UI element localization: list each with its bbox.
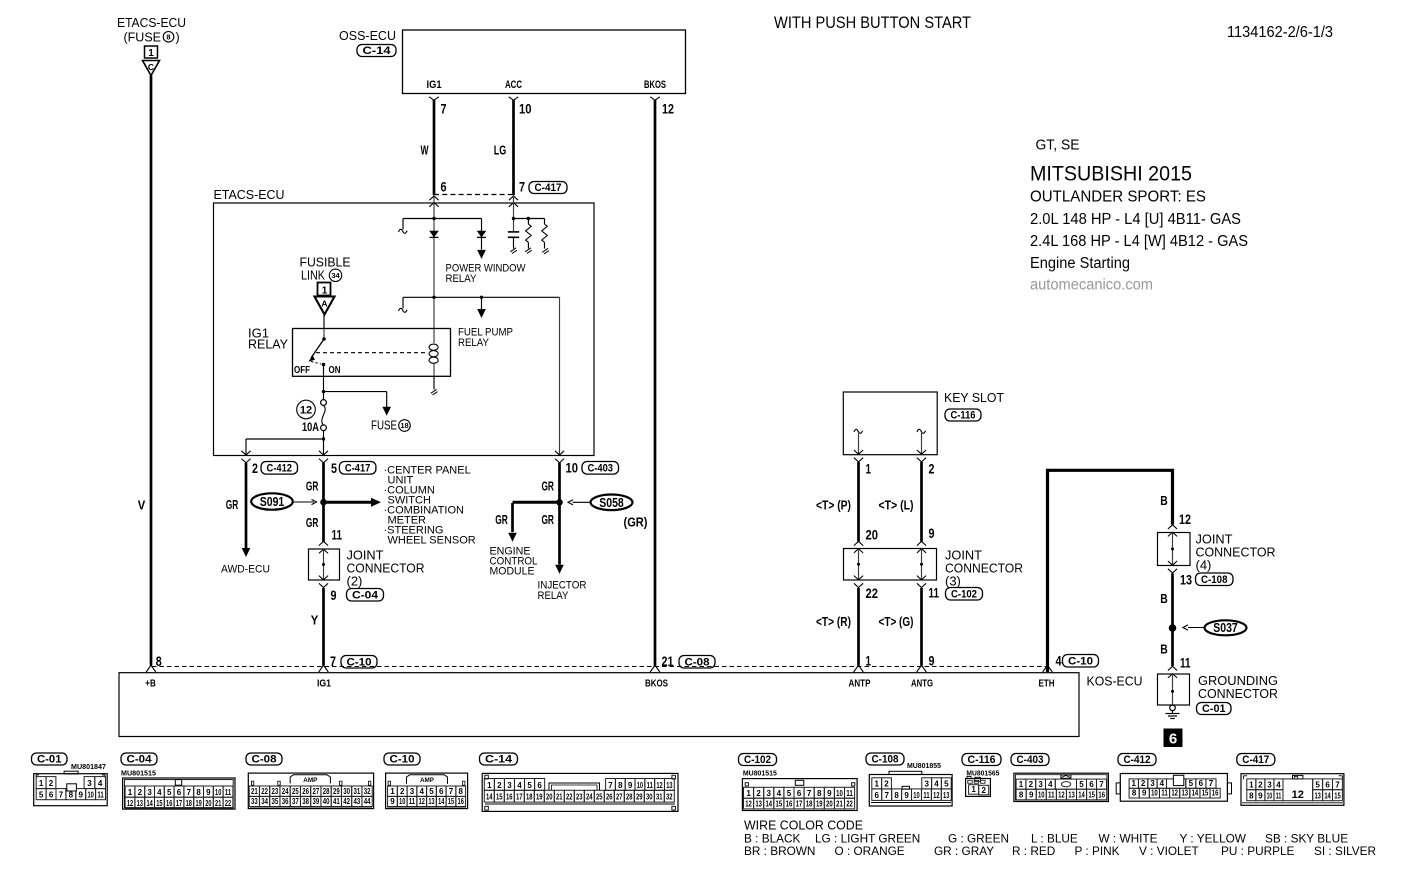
svg-text:6: 6 xyxy=(1199,779,1204,788)
svg-text:20: 20 xyxy=(205,799,212,808)
svg-text:<T> (P): <T> (P) xyxy=(816,499,851,513)
svg-text:13: 13 xyxy=(1180,573,1192,588)
svg-text:12: 12 xyxy=(1179,512,1191,527)
svg-text:C-10: C-10 xyxy=(1068,656,1093,668)
svg-text:WITH PUSH BUTTON START: WITH PUSH BUTTON START xyxy=(774,13,971,32)
svg-text:44: 44 xyxy=(364,797,371,806)
svg-text:28: 28 xyxy=(626,793,633,802)
svg-text:11: 11 xyxy=(929,586,940,601)
svg-text:10: 10 xyxy=(1151,789,1158,798)
svg-text:OSS-ECU: OSS-ECU xyxy=(339,28,396,43)
svg-text:4: 4 xyxy=(1276,780,1281,789)
svg-text:14: 14 xyxy=(1324,791,1331,800)
svg-text:C-01: C-01 xyxy=(37,754,62,766)
svg-text:7: 7 xyxy=(608,781,613,790)
svg-text:1: 1 xyxy=(1249,780,1254,789)
svg-text:6: 6 xyxy=(537,781,542,790)
svg-text:9: 9 xyxy=(1142,789,1147,798)
svg-text:12: 12 xyxy=(745,800,752,809)
svg-text:9: 9 xyxy=(1258,791,1263,800)
svg-text:KOS-ECU: KOS-ECU xyxy=(1087,674,1143,689)
svg-text:2: 2 xyxy=(497,781,502,790)
svg-text:2: 2 xyxy=(400,787,405,796)
svg-text:12: 12 xyxy=(127,799,134,808)
svg-text:9: 9 xyxy=(929,526,935,541)
svg-text:15: 15 xyxy=(448,797,455,806)
svg-text:9: 9 xyxy=(331,588,337,603)
svg-text:5: 5 xyxy=(39,790,44,799)
svg-text:GR: GR xyxy=(495,512,508,527)
svg-text:11: 11 xyxy=(97,790,104,799)
svg-text:2: 2 xyxy=(49,779,54,788)
svg-text:PU : PURPLE: PU : PURPLE xyxy=(1221,844,1295,858)
svg-text:10: 10 xyxy=(913,791,920,800)
svg-text:4: 4 xyxy=(157,788,162,797)
svg-text:(FUSE: (FUSE xyxy=(124,31,162,45)
svg-text:<T> (R): <T> (R) xyxy=(816,615,851,629)
svg-text:24: 24 xyxy=(282,787,289,796)
svg-text:9: 9 xyxy=(904,791,909,800)
svg-text:14: 14 xyxy=(486,793,493,802)
svg-text:C-14: C-14 xyxy=(363,45,392,57)
svg-text:ANTP: ANTP xyxy=(849,679,871,690)
svg-text:10: 10 xyxy=(215,788,222,797)
svg-text:15: 15 xyxy=(496,793,503,802)
svg-text:12: 12 xyxy=(662,102,674,117)
svg-text:MODULE: MODULE xyxy=(490,566,535,578)
svg-text:<T> (L): <T> (L) xyxy=(879,499,914,513)
svg-text:24: 24 xyxy=(586,793,593,802)
svg-text:21: 21 xyxy=(662,654,674,669)
svg-text:6: 6 xyxy=(439,787,444,796)
svg-text:22: 22 xyxy=(846,800,853,809)
svg-text:26: 26 xyxy=(606,793,613,802)
svg-text:5: 5 xyxy=(787,789,792,798)
svg-text:22: 22 xyxy=(225,799,232,808)
svg-text:2: 2 xyxy=(1258,780,1263,789)
svg-text:26: 26 xyxy=(302,787,309,796)
svg-text:10A: 10A xyxy=(302,422,319,434)
svg-text:W: W xyxy=(421,143,429,158)
svg-text:34: 34 xyxy=(331,271,340,280)
svg-text:ON: ON xyxy=(329,364,341,376)
svg-text:4: 4 xyxy=(777,789,782,798)
svg-text:ANTG: ANTG xyxy=(911,679,933,690)
svg-text:29: 29 xyxy=(636,793,643,802)
svg-text:17: 17 xyxy=(796,800,803,809)
svg-text:5: 5 xyxy=(1079,780,1084,789)
svg-text:8: 8 xyxy=(1132,789,1137,798)
svg-text:9: 9 xyxy=(79,790,84,799)
svg-text:16: 16 xyxy=(1098,790,1105,799)
svg-text:31: 31 xyxy=(353,787,360,796)
svg-text:O : ORANGE: O : ORANGE xyxy=(835,844,905,858)
svg-text:10: 10 xyxy=(1267,791,1273,800)
svg-text:7: 7 xyxy=(187,788,192,797)
svg-text:4: 4 xyxy=(517,781,522,790)
svg-text:1: 1 xyxy=(487,781,492,790)
svg-text:12: 12 xyxy=(933,791,940,800)
svg-text:11: 11 xyxy=(225,788,232,797)
svg-text:5: 5 xyxy=(331,461,337,476)
svg-text:C-412: C-412 xyxy=(1124,754,1151,766)
svg-text:23: 23 xyxy=(576,793,583,802)
svg-text:22: 22 xyxy=(566,793,573,802)
svg-text:8: 8 xyxy=(458,787,463,796)
svg-text:C-116: C-116 xyxy=(968,754,996,766)
svg-text:2: 2 xyxy=(252,461,258,476)
svg-text:13: 13 xyxy=(666,781,673,790)
svg-text:32: 32 xyxy=(364,787,371,796)
svg-text:19: 19 xyxy=(195,799,202,808)
svg-text:8: 8 xyxy=(618,781,623,790)
svg-text:13: 13 xyxy=(1314,791,1321,800)
svg-text:1134162-2/6-1/3: 1134162-2/6-1/3 xyxy=(1227,24,1333,41)
svg-text:4: 4 xyxy=(1160,779,1165,788)
svg-text:<T> (G): <T> (G) xyxy=(879,615,914,629)
svg-text:ETACS-ECU: ETACS-ECU xyxy=(214,187,285,202)
svg-text:11: 11 xyxy=(846,789,853,798)
svg-text:18: 18 xyxy=(400,421,408,430)
svg-text:18: 18 xyxy=(526,793,533,802)
svg-text:6: 6 xyxy=(177,788,182,797)
svg-text:6: 6 xyxy=(875,791,880,800)
svg-text:6: 6 xyxy=(1169,731,1177,748)
svg-text:10: 10 xyxy=(637,781,644,790)
svg-text:19: 19 xyxy=(536,793,543,802)
svg-text:6: 6 xyxy=(1325,780,1330,789)
svg-text:(GR): (GR) xyxy=(624,515,648,530)
svg-text:20: 20 xyxy=(826,800,833,809)
svg-text:MU801847: MU801847 xyxy=(71,762,106,771)
svg-text:10: 10 xyxy=(519,102,532,117)
svg-text:10: 10 xyxy=(399,797,406,806)
svg-text:WIRE COLOR CODE: WIRE COLOR CODE xyxy=(744,818,863,833)
svg-text:8: 8 xyxy=(166,33,170,42)
svg-text:12: 12 xyxy=(300,404,312,416)
svg-text:20: 20 xyxy=(866,528,879,543)
svg-text:7: 7 xyxy=(884,791,889,800)
svg-text:4: 4 xyxy=(419,787,424,796)
svg-text:C: C xyxy=(148,62,154,72)
svg-text:7: 7 xyxy=(1209,779,1214,788)
svg-text:1: 1 xyxy=(746,789,751,798)
svg-text:BKOS: BKOS xyxy=(645,679,668,690)
svg-text:22: 22 xyxy=(866,586,879,601)
svg-text:2.0L 148 HP - L4 [U] 4B11- GAS: 2.0L 148 HP - L4 [U] 4B11- GAS xyxy=(1030,211,1241,228)
svg-text:2: 2 xyxy=(1141,779,1146,788)
svg-text:FUSE: FUSE xyxy=(371,418,397,433)
svg-text:GR: GR xyxy=(541,512,554,527)
svg-text:18: 18 xyxy=(806,800,813,809)
svg-text:IG1: IG1 xyxy=(317,679,331,690)
svg-text:C-403: C-403 xyxy=(588,463,614,475)
svg-text:3: 3 xyxy=(87,779,92,788)
svg-text:12: 12 xyxy=(1292,789,1304,801)
svg-text:C-108: C-108 xyxy=(872,754,899,766)
svg-text:11: 11 xyxy=(647,781,654,790)
svg-text:SI : SILVER: SI : SILVER xyxy=(1314,844,1376,858)
svg-text:17: 17 xyxy=(516,793,523,802)
svg-text:7: 7 xyxy=(519,180,525,195)
svg-text:B: B xyxy=(1160,493,1168,508)
svg-text:8: 8 xyxy=(69,790,74,799)
svg-text:C-08: C-08 xyxy=(252,754,277,766)
svg-text:16: 16 xyxy=(1212,789,1219,798)
svg-text:5: 5 xyxy=(944,780,949,789)
svg-text:15: 15 xyxy=(776,800,783,809)
svg-text:8: 8 xyxy=(196,788,201,797)
svg-text:12: 12 xyxy=(1171,789,1178,798)
svg-text:AMP: AMP xyxy=(420,777,435,784)
svg-text:GR: GR xyxy=(306,515,319,530)
svg-text:C-417: C-417 xyxy=(345,463,371,475)
svg-text:C-10: C-10 xyxy=(390,754,415,766)
svg-text:4: 4 xyxy=(1048,780,1053,789)
svg-text:38: 38 xyxy=(302,797,309,806)
svg-text:7: 7 xyxy=(449,787,454,796)
svg-text:RELAY: RELAY xyxy=(538,590,570,602)
svg-text:C-01: C-01 xyxy=(1202,703,1226,715)
svg-text:(3): (3) xyxy=(945,574,961,589)
svg-text:KEY SLOT: KEY SLOT xyxy=(944,390,1004,405)
svg-text:35: 35 xyxy=(271,797,278,806)
svg-text:AMP: AMP xyxy=(303,777,318,784)
svg-text:13: 13 xyxy=(137,799,144,808)
svg-text:8: 8 xyxy=(894,791,899,800)
svg-text:19: 19 xyxy=(816,800,823,809)
svg-text:1: 1 xyxy=(874,780,879,789)
svg-text:40: 40 xyxy=(323,797,330,806)
svg-text:36: 36 xyxy=(282,797,289,806)
svg-text:21: 21 xyxy=(251,787,258,796)
svg-text:17: 17 xyxy=(176,799,183,808)
svg-text:2.4L 168 HP - L4 [W] 4B12 - GA: 2.4L 168 HP - L4 [W] 4B12 - GAS xyxy=(1030,233,1248,250)
svg-text:9: 9 xyxy=(628,781,633,790)
svg-text:14: 14 xyxy=(1078,790,1085,799)
svg-text:RELAY: RELAY xyxy=(446,273,478,285)
svg-text:C-102: C-102 xyxy=(744,754,771,766)
svg-text:22: 22 xyxy=(261,787,268,796)
svg-text:GR: GR xyxy=(306,479,319,494)
svg-text:1: 1 xyxy=(971,785,976,794)
svg-text:1: 1 xyxy=(1132,779,1137,788)
svg-text:12: 12 xyxy=(419,797,426,806)
svg-text:6: 6 xyxy=(1089,780,1094,789)
svg-text:13: 13 xyxy=(943,791,950,800)
svg-text:16: 16 xyxy=(166,799,173,808)
svg-text:LG: LG xyxy=(494,143,507,158)
svg-text:14: 14 xyxy=(146,799,153,808)
svg-text:C-102: C-102 xyxy=(951,589,977,601)
svg-text:3: 3 xyxy=(147,788,152,797)
svg-text:21: 21 xyxy=(836,800,843,809)
svg-text:AWD-ECU: AWD-ECU xyxy=(221,564,270,576)
svg-text:MU801855: MU801855 xyxy=(907,761,941,770)
svg-text:C-04: C-04 xyxy=(127,754,153,766)
svg-text:13: 13 xyxy=(1068,790,1075,799)
svg-text:16: 16 xyxy=(786,800,793,809)
svg-text:6: 6 xyxy=(49,790,54,799)
svg-text:): ) xyxy=(176,31,180,45)
svg-text:C-116: C-116 xyxy=(951,410,976,422)
svg-text:1: 1 xyxy=(390,787,395,796)
svg-text:21: 21 xyxy=(215,799,222,808)
svg-text:9: 9 xyxy=(827,789,832,798)
svg-text:WHEEL SENSOR: WHEEL SENSOR xyxy=(388,535,476,547)
svg-text:11: 11 xyxy=(1276,791,1282,800)
svg-text:ETACS-ECU: ETACS-ECU xyxy=(117,15,186,30)
svg-text:25: 25 xyxy=(292,787,299,796)
svg-text:BR : BROWN: BR : BROWN xyxy=(744,844,815,858)
svg-text:8: 8 xyxy=(1249,791,1254,800)
svg-text:11: 11 xyxy=(1048,790,1055,799)
svg-text:8: 8 xyxy=(1019,790,1024,799)
svg-text:LINK: LINK xyxy=(301,268,325,283)
svg-text:13: 13 xyxy=(1181,789,1188,798)
svg-text:7: 7 xyxy=(1335,780,1340,789)
svg-text:1: 1 xyxy=(322,286,328,297)
svg-text:25: 25 xyxy=(596,793,603,802)
svg-text:Y: Y xyxy=(311,613,319,628)
svg-text:C-417: C-417 xyxy=(535,182,562,194)
svg-text:GT, SE: GT, SE xyxy=(1036,138,1080,154)
svg-text:BKOS: BKOS xyxy=(644,79,666,91)
svg-text:3: 3 xyxy=(1038,780,1043,789)
svg-text:V : VIOLET: V : VIOLET xyxy=(1139,844,1199,858)
svg-text:8: 8 xyxy=(817,789,822,798)
svg-text:MITSUBISHI 2015: MITSUBISHI 2015 xyxy=(1030,162,1192,186)
svg-text:5: 5 xyxy=(1189,779,1194,788)
svg-text:16: 16 xyxy=(506,793,513,802)
svg-text:(2): (2) xyxy=(347,574,363,589)
svg-text:C-14: C-14 xyxy=(485,754,513,766)
svg-text:S058: S058 xyxy=(599,495,624,510)
svg-text:5: 5 xyxy=(429,787,434,796)
svg-text:C-08: C-08 xyxy=(685,657,710,669)
svg-text:GR: GR xyxy=(226,497,239,512)
svg-text:9: 9 xyxy=(206,788,211,797)
svg-text:21: 21 xyxy=(556,793,563,802)
svg-text:3: 3 xyxy=(1150,779,1155,788)
svg-text:34: 34 xyxy=(261,797,268,806)
svg-text:6: 6 xyxy=(441,180,447,195)
svg-text:C-04: C-04 xyxy=(352,590,379,602)
svg-text:12: 12 xyxy=(1058,790,1065,799)
svg-text:4: 4 xyxy=(98,779,103,788)
svg-text:OFF: OFF xyxy=(294,364,310,376)
svg-text:14: 14 xyxy=(438,797,445,806)
svg-text:2: 2 xyxy=(884,780,889,789)
svg-text:C-403: C-403 xyxy=(1017,754,1044,766)
svg-text:3: 3 xyxy=(1267,780,1272,789)
svg-text:28: 28 xyxy=(323,787,330,796)
svg-text:10: 10 xyxy=(566,461,579,476)
svg-text:11: 11 xyxy=(1161,789,1168,798)
svg-text:RELAY: RELAY xyxy=(458,337,490,349)
svg-text:GR: GR xyxy=(541,479,554,494)
svg-text:33: 33 xyxy=(251,797,258,806)
svg-text:41: 41 xyxy=(333,797,340,806)
svg-text:1: 1 xyxy=(148,48,154,59)
svg-text:C-108: C-108 xyxy=(1201,574,1228,586)
svg-text:7: 7 xyxy=(807,789,812,798)
svg-text:R : RED: R : RED xyxy=(1012,844,1055,858)
svg-text:2: 2 xyxy=(756,789,761,798)
svg-text:39: 39 xyxy=(312,797,319,806)
svg-text:CONNECTOR: CONNECTOR xyxy=(1198,686,1278,701)
svg-text:3: 3 xyxy=(924,780,929,789)
svg-text:23: 23 xyxy=(271,787,278,796)
svg-text:13: 13 xyxy=(755,800,762,809)
svg-text:29: 29 xyxy=(333,787,340,796)
svg-text:+B: +B xyxy=(145,679,156,690)
svg-text:15: 15 xyxy=(1334,791,1341,800)
svg-text:7: 7 xyxy=(1099,780,1104,789)
svg-text:2: 2 xyxy=(929,462,935,477)
svg-text:18: 18 xyxy=(186,799,193,808)
svg-text:42: 42 xyxy=(343,797,350,806)
svg-text:S037: S037 xyxy=(1213,620,1238,635)
svg-text:31: 31 xyxy=(656,793,663,802)
svg-text:11: 11 xyxy=(923,791,930,800)
svg-text:2: 2 xyxy=(1029,780,1034,789)
svg-text:11: 11 xyxy=(409,797,416,806)
svg-text:3: 3 xyxy=(507,781,512,790)
svg-text:ETH: ETH xyxy=(1039,679,1055,690)
svg-text:2: 2 xyxy=(138,788,143,797)
svg-text:MU801515: MU801515 xyxy=(743,768,777,777)
svg-text:30: 30 xyxy=(343,787,350,796)
svg-text:32: 32 xyxy=(666,793,673,802)
svg-text:2: 2 xyxy=(981,786,986,795)
svg-text:A: A xyxy=(321,299,327,309)
svg-text:30: 30 xyxy=(646,793,653,802)
svg-text:4: 4 xyxy=(934,780,939,789)
svg-text:7: 7 xyxy=(59,790,64,799)
svg-text:11: 11 xyxy=(1180,656,1191,671)
svg-text:9: 9 xyxy=(390,797,395,806)
svg-text:1: 1 xyxy=(39,779,44,788)
svg-text:3: 3 xyxy=(410,787,415,796)
svg-text:1: 1 xyxy=(866,654,872,669)
svg-text:Engine Starting: Engine Starting xyxy=(1030,255,1130,272)
svg-text:13: 13 xyxy=(428,797,435,806)
svg-text:10: 10 xyxy=(836,789,843,798)
svg-text:(4): (4) xyxy=(1196,558,1212,573)
svg-text:1: 1 xyxy=(866,462,872,477)
svg-text:4: 4 xyxy=(1056,654,1062,669)
svg-text:27: 27 xyxy=(616,793,623,802)
svg-text:S091: S091 xyxy=(260,494,285,509)
svg-text:B: B xyxy=(1160,642,1168,657)
svg-text:14: 14 xyxy=(765,800,772,809)
svg-text:RELAY: RELAY xyxy=(248,337,288,352)
svg-text:43: 43 xyxy=(353,797,360,806)
svg-text:C-417: C-417 xyxy=(1242,754,1269,766)
svg-text:15: 15 xyxy=(156,799,163,808)
svg-text:3: 3 xyxy=(767,789,772,798)
svg-text:IG1: IG1 xyxy=(427,79,442,91)
svg-text:10: 10 xyxy=(1038,790,1045,799)
svg-text:P : PINK: P : PINK xyxy=(1075,844,1120,858)
svg-text:7: 7 xyxy=(441,102,447,117)
svg-text:OUTLANDER SPORT: ES: OUTLANDER SPORT: ES xyxy=(1030,189,1206,206)
svg-text:1: 1 xyxy=(1019,780,1024,789)
svg-text:12: 12 xyxy=(656,781,663,790)
svg-text:5: 5 xyxy=(527,781,532,790)
svg-text:9: 9 xyxy=(929,654,935,669)
